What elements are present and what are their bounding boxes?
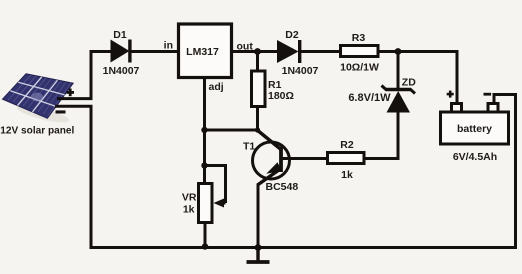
potentiometer VR body xyxy=(199,184,213,223)
svg-text:in: in xyxy=(164,40,173,52)
battery + terminal post xyxy=(452,104,462,113)
svg-text:adj: adj xyxy=(209,81,224,93)
svg-text:LM317: LM317 xyxy=(186,46,219,58)
svg-text:6V/4.5Ah: 6V/4.5Ah xyxy=(453,151,497,163)
wire: panel - lead xyxy=(55,105,93,108)
svg-text:1k: 1k xyxy=(183,204,195,216)
wire: adj to collector connector xyxy=(205,129,260,132)
diode D2 xyxy=(277,40,301,63)
battery BT1 body xyxy=(441,112,509,144)
wire: VR bottom to rail xyxy=(204,223,207,248)
resistor R3 xyxy=(341,46,379,57)
wire: R3 to battery plus corner xyxy=(378,52,457,104)
svg-text:T1: T1 xyxy=(243,141,255,153)
node: adj/collector junction xyxy=(255,127,260,132)
svg-text:1N4007: 1N4007 xyxy=(103,65,140,77)
svg-text:1k: 1k xyxy=(341,169,353,181)
battery + sign xyxy=(447,91,454,98)
wire: D1 cathode to LM317 in xyxy=(131,50,178,53)
transistor T1 (BC548) xyxy=(253,130,290,186)
wire: zener anode down to R2 node xyxy=(364,112,398,159)
node: adj/wiper junction xyxy=(201,162,207,168)
wire: junction down to zener cathode xyxy=(397,52,400,92)
node: adj wire junction xyxy=(201,127,207,133)
svg-text:R3: R3 xyxy=(352,32,366,44)
wire: battery minus top link xyxy=(494,95,517,103)
diode D1 xyxy=(111,40,132,63)
potentiometer VR wiper loop xyxy=(205,166,226,204)
svg-text:battery: battery xyxy=(457,123,492,135)
node: R3 / zener junction xyxy=(395,48,402,55)
wire: emitter down to ground rail xyxy=(257,184,260,248)
resistor R1 xyxy=(252,71,266,107)
wire: panel + lead to riser xyxy=(57,97,93,100)
svg-text:D2: D2 xyxy=(285,29,299,41)
wire: base to R2 xyxy=(282,157,327,160)
battery - sign xyxy=(484,93,492,96)
wire: R1 bottom to collector node xyxy=(256,107,259,132)
solar panel + terminal sign xyxy=(66,89,74,97)
svg-text:BC548: BC548 xyxy=(266,181,299,193)
node: out junction xyxy=(254,48,261,55)
svg-text:180Ω: 180Ω xyxy=(268,90,294,102)
svg-text:D1: D1 xyxy=(113,29,127,41)
ground xyxy=(247,248,270,263)
wire: D1 anode lead xyxy=(90,50,112,53)
wire: D2 cathode to R3 xyxy=(301,50,341,53)
svg-text:R2: R2 xyxy=(340,139,354,151)
potentiometer VR wiper arrow xyxy=(214,199,226,208)
svg-text:1N4007: 1N4007 xyxy=(282,65,319,77)
wire: LM317 out to D2 anode xyxy=(232,50,279,53)
resistor R2 xyxy=(328,153,365,164)
wire: right rail xyxy=(514,93,517,248)
regulator adj pin wire xyxy=(203,77,206,183)
solar panel - terminal sign xyxy=(56,110,66,113)
wire: out junction down to R1 xyxy=(256,52,259,72)
svg-text:6.8V/1W: 6.8V/1W xyxy=(348,92,391,104)
node: emitter/ground junction xyxy=(255,244,262,251)
zener diode ZD xyxy=(382,86,416,113)
regulator U1 LM317 body xyxy=(179,24,232,78)
svg-text:12V solar panel: 12V solar panel xyxy=(0,126,74,137)
wire: bottom rail xyxy=(90,246,518,249)
wire: + riser up to D1 row xyxy=(90,50,93,99)
svg-text:10Ω/1W: 10Ω/1W xyxy=(340,62,379,74)
svg-text:VR: VR xyxy=(182,192,197,204)
wire: left rail down xyxy=(90,106,93,249)
svg-text:ZD: ZD xyxy=(402,77,416,89)
node: VR / bottom rail junction xyxy=(202,243,208,249)
solar panel PV1 (12V) xyxy=(3,74,74,126)
battery - terminal post xyxy=(488,104,498,113)
